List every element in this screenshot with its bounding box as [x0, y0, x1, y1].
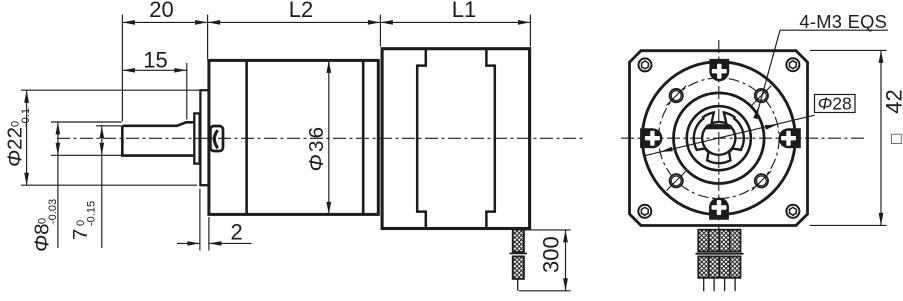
- cross screw bottom: [709, 198, 729, 220]
- label 4-M3 EQS: [799, 11, 887, 32]
- gearbox internal line 2: [362, 60, 365, 214]
- svg-text:20: 20: [149, 0, 173, 22]
- svg-text:L2: L2: [289, 0, 313, 22]
- lead wires (front): [704, 278, 735, 291]
- hub circle: [687, 106, 751, 170]
- center line (side view): [57, 137, 586, 139]
- dim 7 0/-0.15: [69, 126, 122, 248]
- dim phi22 0/-0.1: [4, 90, 200, 185]
- svg-text:15: 15: [143, 47, 167, 72]
- svg-text:-0.1: -0.1: [20, 108, 32, 127]
- face ring circle: [674, 93, 765, 184]
- cable lower segment (side): [513, 256, 524, 279]
- M3 hole bottom-right: [752, 171, 772, 191]
- shaft with D-flat: [122, 122, 194, 155]
- front view vertical center line: [718, 40, 720, 246]
- dim 300: [519, 230, 571, 291]
- gearbox body: [209, 60, 378, 214]
- cable upper segment (side): [513, 230, 524, 252]
- dim 2: [177, 189, 252, 251]
- cross screw right: [779, 128, 801, 148]
- cable break line (side): [510, 252, 528, 254]
- dim text 20: [149, 0, 173, 22]
- dim phi28 leader: [644, 115, 815, 156]
- front view horizontal center line: [621, 137, 866, 139]
- svg-text:Φ22: Φ22: [4, 127, 27, 167]
- cable upper segment (front): [698, 230, 740, 252]
- svg-text:L1: L1: [452, 0, 476, 22]
- dim phi8 0/-0.03: [31, 122, 122, 252]
- dim text L1: [452, 0, 476, 22]
- bearing disc: [194, 113, 199, 163]
- stator lamination left: [417, 49, 426, 229]
- svg-text:Φ8: Φ8: [31, 223, 54, 252]
- dim phi36: [305, 60, 331, 214]
- corner screw bottom-right: [786, 205, 799, 218]
- phi28 label box: [815, 93, 856, 113]
- svg-text:Φ28: Φ28: [818, 93, 852, 113]
- gearbox outline circle phi36: [642, 62, 795, 215]
- corner screw top-right: [786, 58, 799, 71]
- M3 hole top-right: [752, 86, 772, 106]
- dim 15: [122, 47, 186, 119]
- motor body: [382, 49, 529, 229]
- svg-text:Φ36: Φ36: [305, 125, 328, 172]
- dim line 20-L2-L1: [122, 21, 530, 23]
- stator lamination right: [486, 49, 494, 229]
- dim text L2: [289, 0, 313, 22]
- arrows top chain: [122, 20, 530, 25]
- svg-text:7: 7: [69, 229, 92, 240]
- M3 hole top-left: [666, 86, 686, 106]
- dim square42: [810, 50, 903, 225]
- cross screw left: [640, 128, 662, 148]
- shaft retaining E-clip: [694, 112, 744, 163]
- corner screw bottom-left: [638, 205, 651, 218]
- cable break line (front): [696, 253, 744, 255]
- cable lead wire (side): [517, 279, 519, 291]
- cross screw top: [709, 59, 729, 81]
- cable lower segment (front): [698, 256, 740, 277]
- shaft circle with D-flat: [702, 125, 735, 154]
- svg-text:2: 2: [230, 220, 242, 245]
- svg-text:4-M3 EQS: 4-M3 EQS: [799, 11, 887, 32]
- gearbox internal line 1: [245, 60, 248, 214]
- output boss: [210, 126, 223, 151]
- svg-text:-0.03: -0.03: [47, 199, 59, 224]
- dim 20/L2/L1 extension lines: [122, 15, 530, 122]
- bolt circle phi28 (dash-dot): [659, 78, 780, 199]
- svg-text:300: 300: [539, 236, 564, 273]
- motor flange square: [630, 51, 808, 226]
- M3 hole bottom-left: [666, 171, 686, 191]
- svg-text:-0.15: -0.15: [86, 201, 98, 226]
- pilot flange: [200, 90, 209, 185]
- corner screw top-left: [639, 58, 652, 71]
- 4-M3 leader: [753, 30, 888, 119]
